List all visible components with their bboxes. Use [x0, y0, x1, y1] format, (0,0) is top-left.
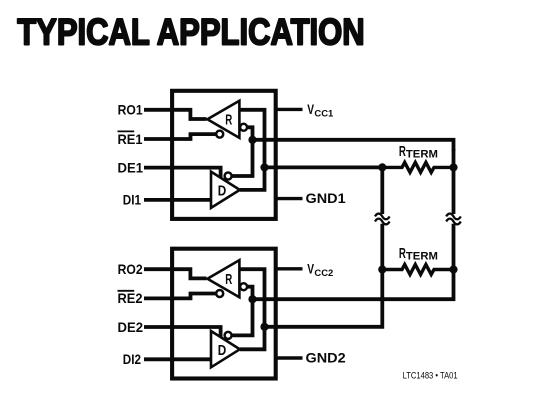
- pin label DI2: [123, 351, 141, 367]
- pin label GND2: [306, 350, 346, 366]
- svg-text:RO1: RO1: [118, 102, 143, 118]
- receiver R1: [207, 101, 239, 138]
- resistor RTERM1: [382, 144, 453, 172]
- driver D1: [211, 172, 240, 208]
- wire RE1 to receiver enable bubble: [144, 134, 216, 139]
- svg-text:GND1: GND1: [306, 190, 346, 206]
- wire DE1 to driver enable: [144, 168, 221, 178]
- pin label VCC2: [307, 260, 333, 279]
- pin label GND1: [306, 190, 346, 206]
- pin label VCC1: [307, 101, 334, 120]
- pin label RE2 (active low, overline): [118, 290, 143, 306]
- pin label RE1 (active low, overline): [118, 131, 143, 147]
- receiver R1 inverting input bubble: [240, 124, 247, 131]
- wire R1 inverting input / D1 inverting output to line A: [232, 127, 252, 176]
- svg-text:TYPICAL APPLICATION: TYPICAL APPLICATION: [17, 11, 365, 53]
- receiver R2 inverting input bubble: [240, 283, 247, 290]
- junction dot RTERM2 right: [449, 265, 457, 273]
- pin label DE1: [118, 159, 144, 175]
- junction dot RTERM1 left: [378, 163, 386, 171]
- pin label RO2: [118, 261, 143, 277]
- svg-text:R: R: [225, 272, 232, 288]
- svg-text:LTC1483 • TA01: LTC1483 • TA01: [403, 371, 458, 381]
- junction dot RTERM1 right: [449, 163, 457, 171]
- pin stub GND2: [276, 356, 303, 359]
- junction dot U1 line A: [248, 136, 256, 144]
- svg-text:CC1: CC1: [314, 109, 334, 120]
- wire DI1 to driver input: [144, 198, 211, 202]
- receiver R2 enable bubble: [216, 290, 223, 297]
- wire R2 inverting input / D2 inverting output to line A: [232, 287, 252, 336]
- receiver R1 enable bubble: [216, 131, 223, 138]
- wire left bus upper segment: [380, 167, 384, 214]
- svg-text:R: R: [225, 113, 232, 129]
- wire RO2 to receiver output: [144, 269, 207, 278]
- wire right bus lower segment to U2 line A: [253, 224, 454, 299]
- wire line A from U1 to right bus: [253, 140, 454, 151]
- caption LTC1483 TA01: [403, 371, 458, 381]
- svg-text:DE1: DE1: [118, 159, 144, 175]
- wire RO1 to receiver output: [144, 110, 207, 119]
- break symbol left bus: [375, 214, 390, 225]
- svg-text:D: D: [218, 343, 227, 359]
- wire line B from U1 to left bus: [265, 165, 383, 169]
- svg-text:CC2: CC2: [314, 268, 333, 279]
- driver D2: [211, 331, 240, 367]
- transceiver U2 box: [172, 249, 276, 379]
- junction dot U2 line A: [248, 295, 256, 303]
- svg-text:TERM: TERM: [406, 251, 438, 263]
- pin label RO1: [118, 102, 143, 118]
- transceiver U1 box: [172, 91, 276, 219]
- junction dot U1 line B: [260, 163, 268, 171]
- title TYPICAL APPLICATION: [17, 11, 365, 53]
- pin stub GND1: [276, 197, 303, 200]
- svg-text:RE1: RE1: [118, 131, 143, 147]
- wire left bus lower segment to U2 line B: [265, 224, 383, 327]
- pin stub VCC1: [276, 108, 303, 111]
- resistor RTERM2: [382, 246, 453, 274]
- svg-text:DI1: DI1: [123, 191, 141, 207]
- wire DE2 to driver enable: [144, 327, 221, 337]
- svg-text:RE2: RE2: [118, 290, 143, 306]
- svg-text:GND2: GND2: [306, 350, 346, 366]
- svg-text:DE2: DE2: [118, 319, 144, 335]
- receiver R2: [207, 260, 239, 297]
- svg-text:RO2: RO2: [118, 261, 143, 277]
- pin stub VCC2: [276, 267, 303, 270]
- svg-text:DI2: DI2: [123, 351, 141, 367]
- break symbol right bus: [446, 214, 461, 225]
- wire R2 input / D2 output to line B: [239, 269, 264, 349]
- wire DI2 to driver input: [144, 357, 211, 361]
- svg-text:D: D: [218, 184, 227, 200]
- svg-text:TERM: TERM: [406, 148, 438, 160]
- junction dot RTERM2 left: [378, 265, 386, 273]
- wire RE2 to receiver enable bubble: [144, 294, 216, 299]
- driver D1 inverting output bubble: [225, 173, 232, 180]
- driver D2 inverting output bubble: [225, 332, 232, 339]
- pin label DE2: [118, 319, 144, 335]
- wire right bus upper segment: [452, 149, 456, 214]
- wire R1 input / D1 output to line B: [239, 110, 264, 190]
- pin label DI1: [123, 191, 141, 207]
- junction dot U2 line B: [260, 323, 268, 331]
